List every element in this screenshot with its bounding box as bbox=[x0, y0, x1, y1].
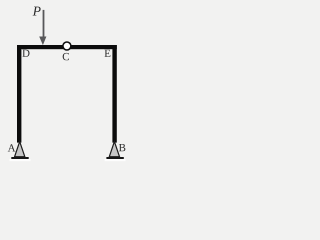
label P bbox=[33, 7, 41, 16]
load arrow P bbox=[39, 10, 46, 45]
ground highlight A bbox=[10, 159, 31, 161]
member AD (left column) bbox=[17, 45, 21, 143]
member BE (right column) bbox=[112, 45, 116, 143]
label B bbox=[119, 144, 125, 151]
ground bar B bbox=[106, 157, 123, 159]
label E bbox=[105, 50, 111, 57]
hinge C bbox=[63, 42, 71, 50]
support A (pin) bbox=[15, 142, 25, 157]
ground highlight B bbox=[105, 159, 126, 161]
ground bar A bbox=[11, 157, 28, 159]
member DE (top beam) bbox=[17, 45, 117, 49]
label D bbox=[22, 50, 29, 57]
label A bbox=[8, 144, 16, 151]
label C bbox=[63, 53, 69, 60]
support B (pin) bbox=[109, 142, 119, 157]
